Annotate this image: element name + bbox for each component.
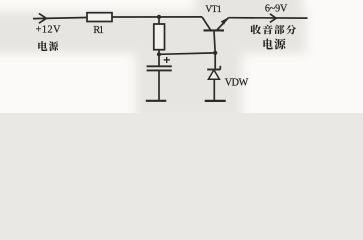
svg-text:6~9V: 6~9V (265, 4, 288, 15)
svg-text:R1: R1 (93, 25, 103, 36)
svg-text:+12V: +12V (36, 25, 62, 36)
svg-text:VT1: VT1 (205, 5, 222, 15)
svg-text:VDW: VDW (225, 78, 249, 89)
